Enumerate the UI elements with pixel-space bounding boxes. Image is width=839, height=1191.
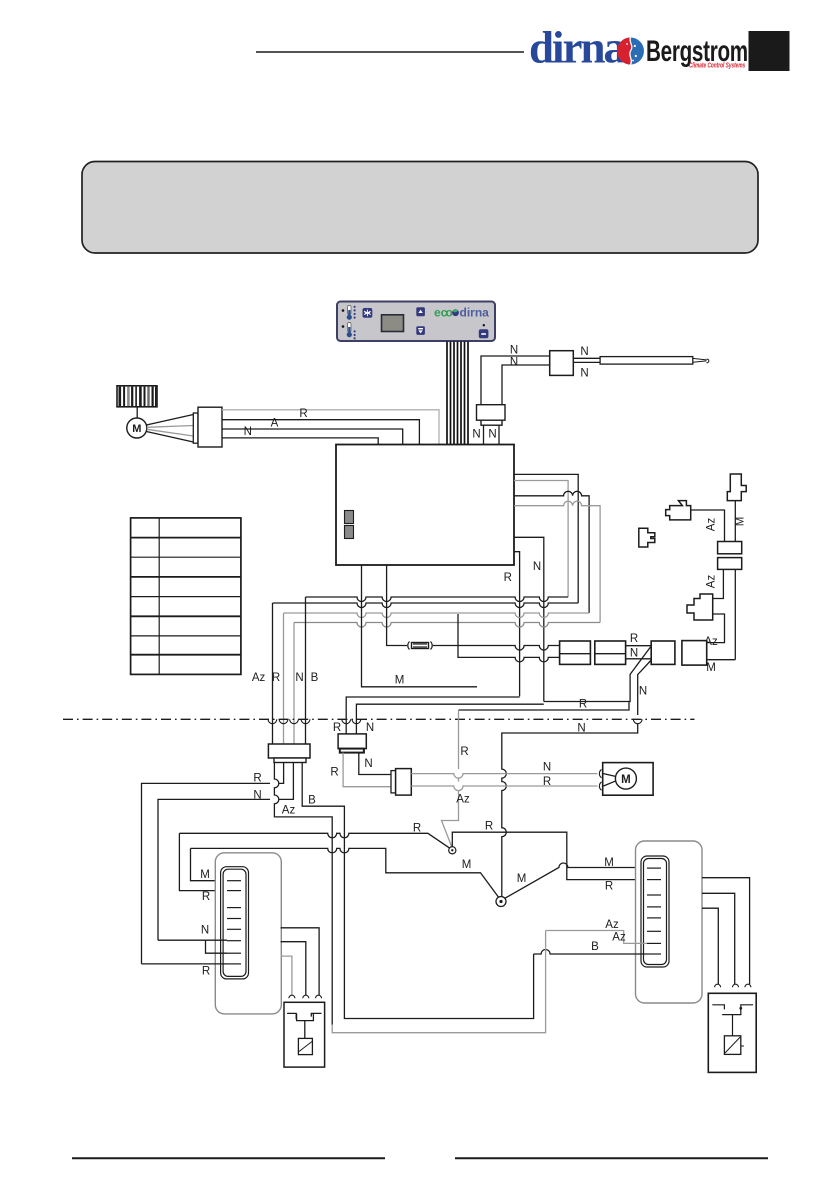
inline connector lower box [718, 558, 742, 570]
wire N into left block with branch [158, 940, 227, 953]
bus wire 3 grey [284, 613, 590, 618]
svg-text:N: N [577, 723, 585, 735]
svg-text:R: R [485, 821, 493, 833]
svg-text:Az: Az [706, 575, 718, 589]
wire Az into right block with step [546, 931, 647, 944]
svg-text:Az: Az [706, 518, 718, 532]
svg-text:N: N [366, 722, 374, 734]
riser Az left [272, 603, 274, 744]
svg-text:Climate Control Systems: Climate Control Systems [689, 63, 746, 70]
legend table [131, 518, 241, 675]
node1 junction [449, 847, 456, 854]
svg-text:R: R [413, 823, 421, 835]
svg-text:N: N [295, 672, 303, 684]
relay K1 box [284, 1002, 325, 1067]
wire R horizontal to node1 (hops over Az,B verticals) [179, 833, 450, 848]
B U-loop [344, 954, 533, 1019]
left block output 1 [281, 928, 320, 996]
svg-text:dirna: dirna [529, 23, 626, 73]
header black square [749, 31, 790, 71]
wire N sensor upper [481, 356, 550, 405]
svg-text:M: M [200, 869, 210, 881]
dash-dot separation line [63, 718, 695, 720]
svg-text:M: M [706, 662, 716, 674]
svg-text:N: N [639, 686, 647, 698]
crossing bumps on dash-dot [268, 719, 642, 723]
electronic control unit box [336, 445, 514, 566]
wire N pin to left riser [158, 763, 293, 941]
fan lines into motor [604, 774, 617, 777]
resistor ticks left block [227, 881, 241, 964]
up button [416, 307, 425, 316]
ecu drop fuse wire [387, 565, 407, 646]
svg-text:N: N [510, 345, 518, 357]
svg-text:R: R [504, 572, 512, 584]
svg-text:M: M [735, 517, 747, 527]
thermometer icon upper [342, 306, 356, 320]
snowflake button [363, 308, 373, 318]
resistor pack box E [560, 641, 591, 664]
wire R F to G [626, 645, 652, 647]
wire R motor [222, 420, 419, 444]
probe neck [573, 357, 600, 359]
down button [416, 326, 425, 335]
svg-text:R: R [299, 408, 307, 420]
diagonal R from box G [544, 647, 651, 702]
resistor ticks right block [647, 868, 661, 954]
right block output 1 [702, 878, 750, 985]
svg-text:R: R [202, 966, 210, 978]
svg-text:N: N [472, 429, 480, 441]
logo circle [617, 38, 644, 65]
svg-text:Az: Az [605, 919, 619, 931]
left block output 3 grey [281, 956, 292, 995]
temperature probe box [550, 351, 574, 376]
condenser motor box [603, 763, 653, 796]
wire R lower horizontal [459, 702, 630, 711]
fuse [408, 642, 432, 650]
svg-text:N: N [364, 758, 372, 770]
grey rounded panel box [82, 162, 758, 254]
heater stem [136, 407, 138, 418]
svg-text:R: R [330, 767, 338, 779]
relay K2 coil [724, 1036, 740, 1055]
wire B pin right [302, 763, 344, 1011]
svg-text:R: R [333, 722, 341, 734]
relay K1 contacts [287, 1013, 321, 1038]
ecu connector pad 1 [345, 511, 354, 524]
relay K2 contacts [712, 1005, 753, 1036]
wire A motor [222, 429, 403, 444]
motor M2 circle [615, 768, 636, 789]
svg-text:R: R [579, 699, 587, 711]
svg-text:R: R [460, 746, 468, 758]
left resistor block inner double [221, 867, 249, 979]
svg-text:R: R [630, 633, 638, 645]
wire L2 N-net [356, 704, 543, 734]
svg-text:N: N [580, 346, 588, 358]
connector H R/N [338, 734, 366, 749]
svg-text:N: N [630, 648, 638, 660]
svg-text:Az: Az [456, 794, 470, 806]
svg-text:M: M [517, 873, 527, 885]
relay K1 coil [298, 1038, 312, 1054]
svg-text:N: N [580, 368, 588, 380]
svg-text:M: M [462, 859, 472, 871]
svg-text:N: N [253, 790, 261, 802]
wire B into right block (hop) [534, 950, 647, 955]
wire M from P1 down [734, 501, 736, 542]
svg-text:N: N [488, 429, 496, 441]
svg-text:Az: Az [282, 805, 296, 817]
bus wire 1 [306, 597, 569, 602]
thermostat component I [391, 771, 396, 793]
wire N motor [222, 438, 378, 444]
motor fan-out wires [146, 415, 193, 426]
power button [479, 324, 489, 338]
svg-text:A: A [271, 418, 279, 430]
svg-text:Az: Az [252, 672, 266, 684]
wire N to control unit [498, 425, 500, 444]
footer rule right [455, 1157, 768, 1159]
svg-text:N: N [510, 357, 518, 369]
wire N from ecu right-bottom [514, 537, 544, 701]
inline connector upper box [718, 542, 742, 554]
wire Az pin with hops [274, 763, 332, 1025]
ecodirna logotext [434, 306, 489, 320]
branch riser to box E lower input [458, 614, 560, 662]
riser R left grey [283, 613, 285, 744]
wire R grey to condenser motor [411, 786, 597, 791]
connector sensor plug [477, 405, 506, 426]
wire R vertical to node1 [458, 710, 460, 769]
heater resistor striped block [117, 386, 157, 407]
fuse wire to box E [433, 646, 560, 651]
motor connector [193, 413, 198, 443]
wire Az from P2 [691, 510, 725, 542]
svg-text:R: R [272, 672, 280, 684]
connector H2 4-pole [268, 744, 310, 758]
svg-text:o: o [446, 306, 453, 320]
wire R from ecu right-bottom [514, 552, 520, 697]
wire M into box D [707, 659, 736, 661]
wire ecu right exit 1 to bus riser [514, 481, 568, 598]
plug chevrons [599, 770, 601, 791]
wire R from node1 to right block (hop at N vertical) [452, 832, 647, 879]
svg-text:M: M [132, 423, 141, 435]
blower motor M1 [127, 418, 147, 438]
header rule [256, 51, 524, 53]
relay box G [651, 641, 675, 664]
wire R pin to left riser [142, 763, 284, 964]
thermal switch connector P4 [687, 594, 713, 620]
relay K2 box [708, 993, 756, 1072]
connector P3 [639, 528, 655, 547]
riser B left [305, 597, 307, 744]
wire N grey to condenser motor [411, 774, 597, 779]
wire M horizontal (hops) [191, 848, 500, 898]
wire R grey from H [343, 753, 391, 787]
wire ecu right exit 2 to bus riser [514, 474, 578, 603]
wire N F to G [626, 658, 652, 660]
relay K2 pin hooks [715, 984, 751, 987]
bus wire 2 [273, 603, 579, 608]
relay K1 pin hooks [289, 995, 322, 998]
left block output 2 [281, 942, 306, 996]
wire N sensor lower [502, 365, 550, 405]
svg-text:R: R [605, 881, 613, 893]
svg-text:Az: Az [612, 932, 626, 944]
probe tip [693, 358, 709, 362]
right resistor block inner double [641, 856, 669, 967]
svg-text:N: N [201, 925, 209, 937]
svg-text:B: B [308, 795, 316, 807]
panel ribbon cable (7 wires) [447, 342, 468, 445]
svg-text:M: M [621, 774, 631, 786]
wire ecu right exit 4 grey (hops) [514, 501, 600, 622]
pressure switch connector P2 [666, 501, 691, 520]
svg-text:N: N [543, 762, 551, 774]
probe body [600, 357, 693, 365]
footer rule left [72, 1157, 385, 1159]
svg-text:R: R [253, 773, 261, 785]
right block output 3 [702, 908, 718, 984]
right block output 2 [702, 893, 735, 984]
svg-text:B: B [311, 672, 319, 684]
right resistor block outer [636, 841, 703, 1003]
wire N to control unit [483, 425, 485, 444]
pressure switch connector P1 top right [727, 474, 746, 501]
wire R bottom into left block [142, 963, 228, 965]
diagonal N from box G [638, 661, 651, 716]
svg-text:M: M [604, 857, 614, 869]
thermometer icon lower [342, 323, 356, 340]
svg-text:M: M [395, 675, 405, 687]
svg-text:N: N [244, 426, 252, 438]
bus wire 4 grey [294, 623, 600, 628]
wire R riser into left block [179, 833, 227, 890]
ecu drop M wire [362, 565, 478, 687]
Az U-loop grey [332, 931, 545, 1033]
wire M below connector [734, 569, 736, 659]
wire M riser into left block [191, 848, 228, 880]
wire Az from P4 to box D [707, 614, 725, 643]
wire N from H [359, 753, 391, 775]
svg-text:R: R [202, 891, 210, 903]
wire M from node2 to right block (hop) [505, 863, 648, 898]
svg-text:R: R [543, 776, 551, 788]
relay box D [682, 641, 707, 666]
svg-text:N: N [533, 561, 541, 573]
node2 junction [496, 897, 506, 907]
wire N lower horizontal [502, 724, 638, 897]
left resistor block outer [215, 853, 281, 1014]
resistor pack box F [595, 641, 626, 664]
wire grey from motor connector [222, 410, 439, 444]
wire L1 R-net [346, 697, 519, 734]
wire ecu right exit 3 (hops) [514, 491, 589, 613]
ecu connector pad 2 [345, 526, 354, 539]
riser N left grey [293, 623, 295, 745]
svg-text:B: B [591, 941, 599, 953]
control unit panel [337, 302, 495, 342]
LCD display [382, 315, 404, 332]
wire Az below connector [713, 569, 724, 598]
svg-text:dirna: dirna [460, 306, 490, 320]
